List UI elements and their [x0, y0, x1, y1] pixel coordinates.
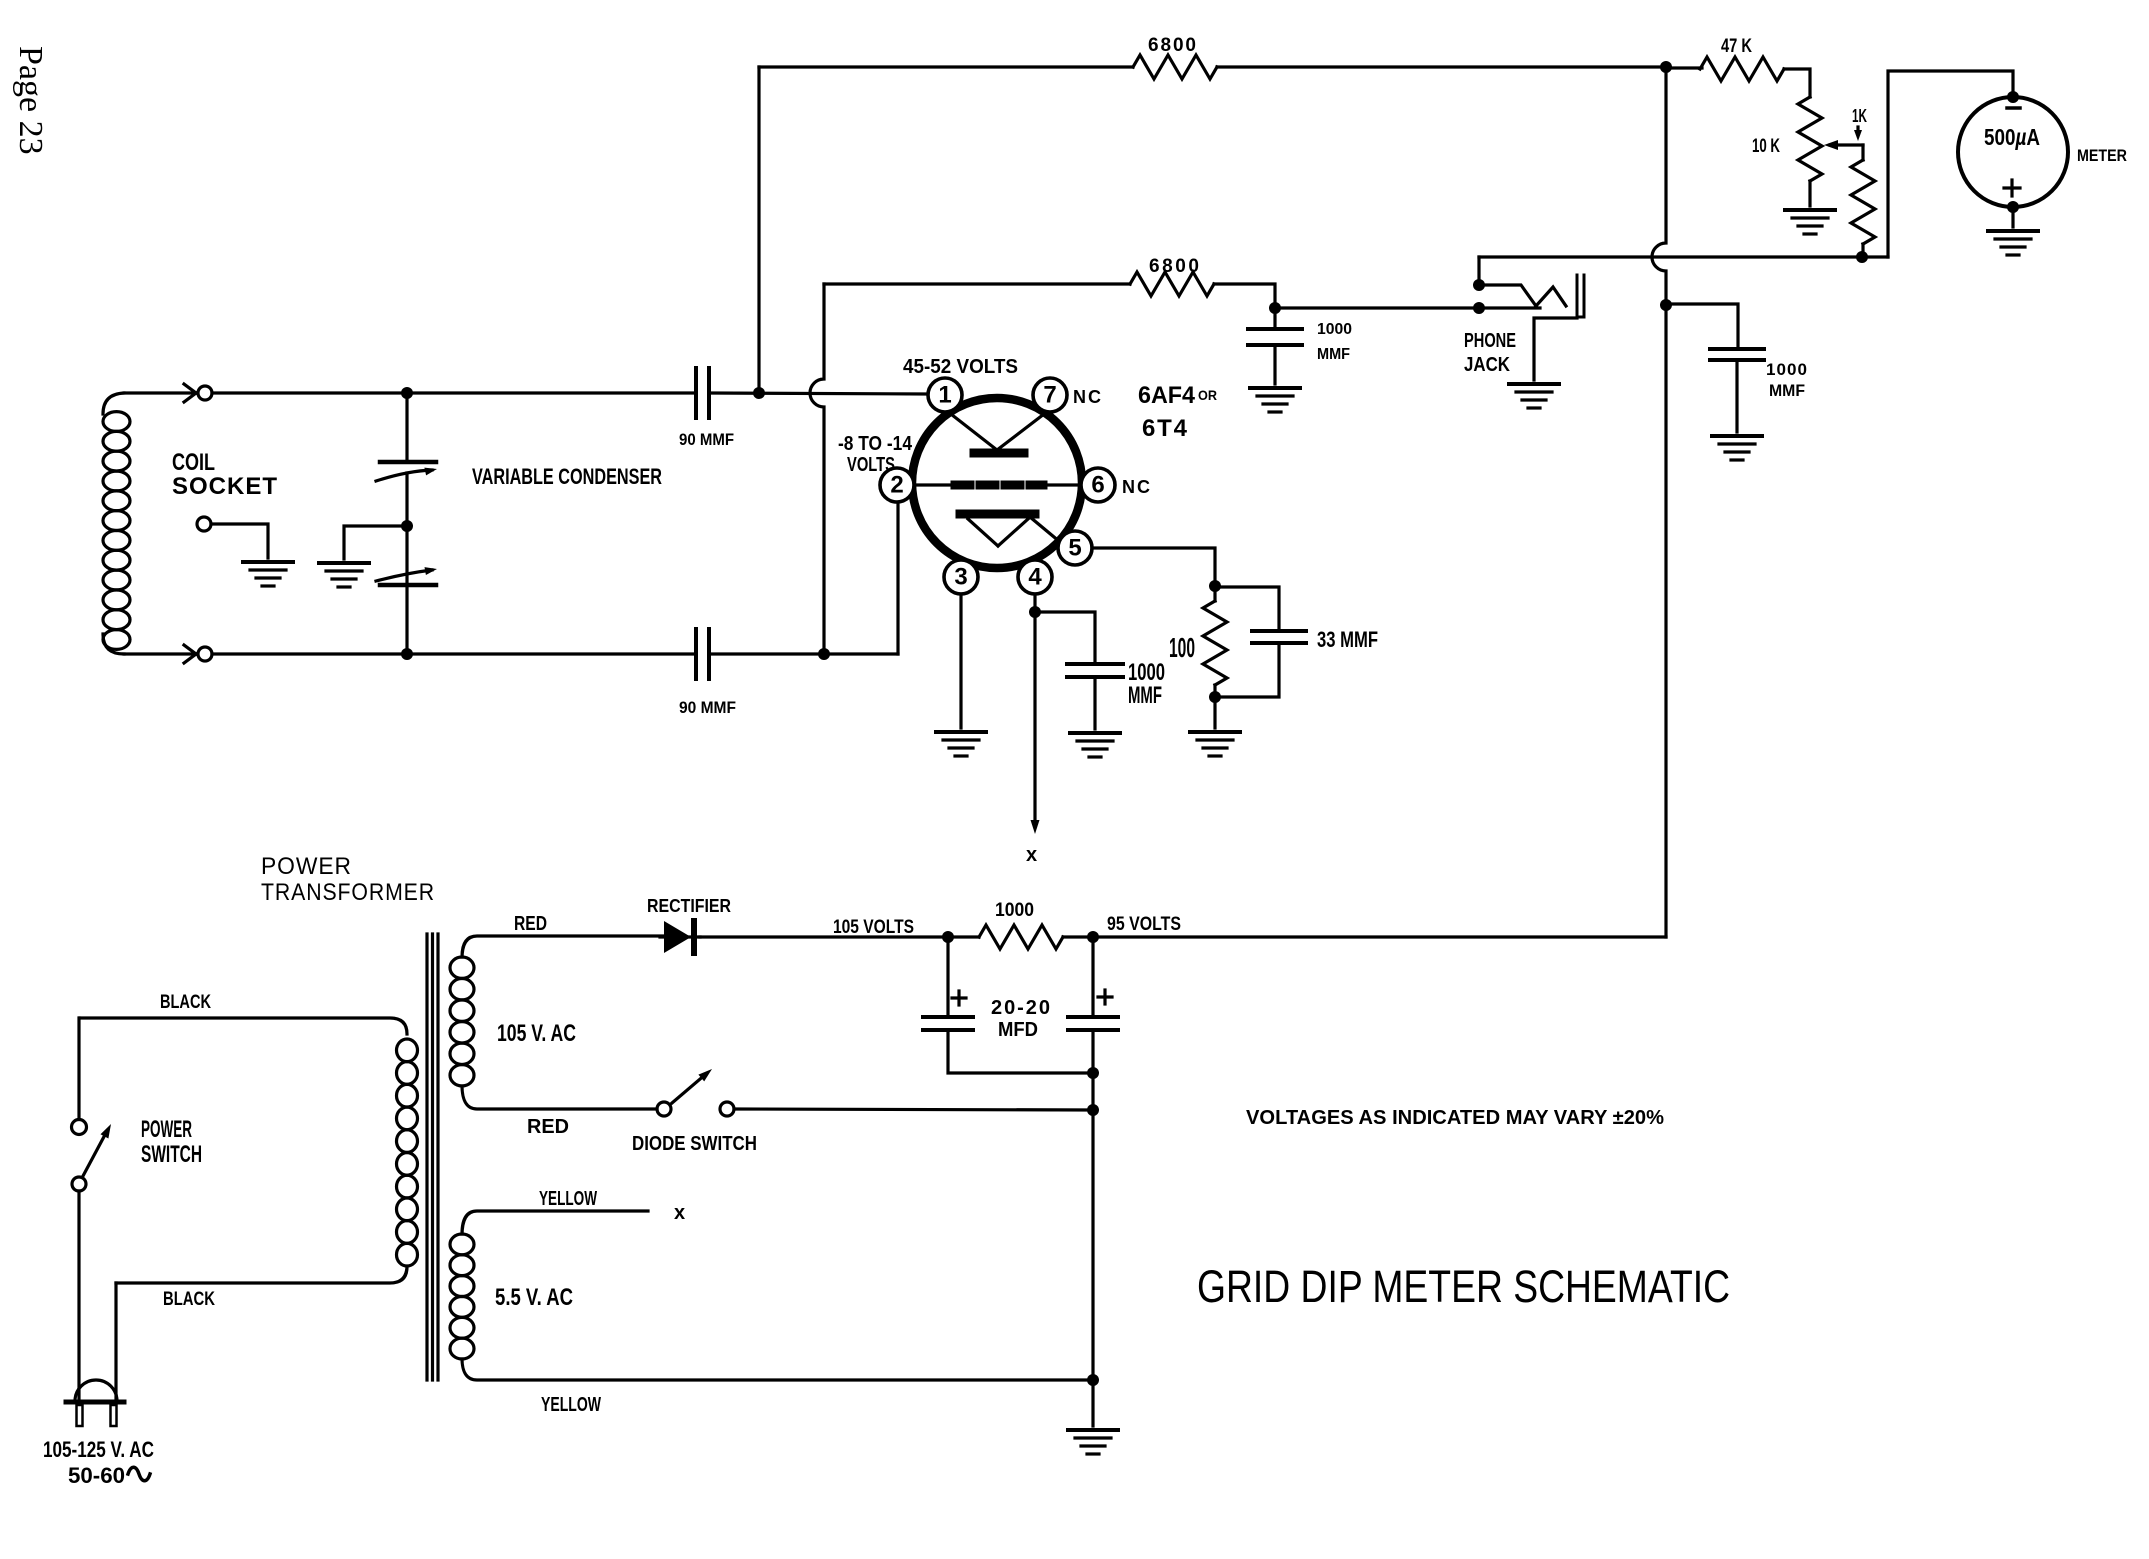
pin 3: [944, 560, 978, 594]
svg-text:TRANSFORMER: TRANSFORMER: [261, 879, 435, 906]
node: meter branch junction: [1856, 251, 1868, 263]
AC plug: [66, 1380, 124, 1426]
transformer primary winding: [80, 1018, 418, 1283]
svg-text:6T4: 6T4: [1142, 415, 1188, 442]
node: 1000MMF bypass junction: [1269, 302, 1281, 314]
node: pin 4 heater junction: [1029, 606, 1041, 618]
variable condenser ganged capacitor section 1: [376, 393, 437, 481]
node: B+ / 1000MMF RF bypass: [1660, 299, 1672, 311]
node: heater return: [1087, 1374, 1099, 1386]
capacitor 33 MMF: [1215, 587, 1306, 697]
label COIL SOCKET: [172, 449, 277, 500]
tube filament V: [968, 519, 1028, 546]
svg-text:MMF: MMF: [1128, 682, 1162, 709]
svg-text:105-125 V. AC: 105-125 V. AC: [43, 1437, 154, 1462]
svg-text:500µA: 500µA: [1984, 124, 2040, 150]
ground (power supply common): [1068, 1430, 1118, 1454]
phone jack sleeve: [1577, 275, 1584, 317]
wire 6800 to B+ rail: [1217, 65, 1666, 68]
node: B+ top (6800/47K): [1660, 61, 1672, 73]
svg-text:5.5 V. AC: 5.5 V. AC: [495, 1284, 573, 1311]
svg-text:SWITCH: SWITCH: [141, 1141, 202, 1168]
node: meter plus terminal: [2007, 201, 2019, 213]
label PHONE JACK: [1464, 330, 1516, 376]
node: lower junction with 6800 dropper: [818, 648, 830, 660]
wire B+ to 47K: [1666, 66, 1702, 69]
label -8 TO -14 VOLTS: [838, 433, 913, 476]
wire jack to meter branch: [1479, 255, 1888, 258]
socket pin bottom: [198, 647, 212, 661]
svg-text:47 K: 47 K: [1721, 36, 1752, 57]
tube 6AF4/6T4 envelope: [912, 398, 1082, 568]
wire rectifier output: [700, 935, 948, 938]
svg-text:90 MMF: 90 MMF: [679, 430, 734, 449]
transformer secondary 105V winding: [450, 936, 666, 1109]
wire junction to 1000MMF heater bypass: [1035, 612, 1095, 664]
svg-text:45-52 VOLTS: 45-52 VOLTS: [903, 356, 1018, 378]
ground (1000MMF bypass): [1250, 388, 1300, 412]
resistor 6800 (top feedback): [1133, 55, 1217, 79]
potentiometer wiper arrow: [1824, 140, 1863, 150]
node: meter minus terminal: [2007, 91, 2019, 103]
label 1K with pointer: [1852, 106, 1867, 141]
transformer secondary 5.5V winding: [450, 1211, 1093, 1380]
wire to 1000 resistor: [948, 935, 979, 938]
svg-text:5: 5: [1068, 535, 1081, 562]
tube anode plate bar: [974, 449, 1024, 458]
capacitor 90 MMF upper: [696, 368, 709, 418]
node: variable condenser top: [401, 387, 413, 399]
node: top RC junction: [753, 387, 765, 399]
wire pin 3 to ground: [959, 594, 962, 728]
wire coil top to socket pin: [124, 391, 196, 394]
ground (variable condenser rotor): [319, 563, 369, 587]
pin 4: [1018, 560, 1052, 594]
wire to RF bypass cap: [1666, 304, 1738, 349]
tube anode V leads to pins 1 and 7: [947, 411, 1048, 450]
node: variable condenser bottom: [401, 648, 413, 660]
node: 100/33MMF top: [1209, 580, 1221, 592]
wire vertical from top 6800 feedback line: [757, 67, 760, 393]
svg-text:GRID DIP METER SCHEMATIC: GRID DIP METER SCHEMATIC: [1197, 1261, 1730, 1312]
ground (coil socket center pin): [243, 562, 293, 586]
ground (10K): [1785, 210, 1835, 234]
wire 90MMF lower to pin2 riser: [709, 652, 898, 655]
socket contact arrow bottom: [184, 645, 196, 663]
svg-text:1: 1: [938, 382, 951, 409]
svg-text:Page 23: Page 23: [12, 46, 49, 155]
wire 6800 to phone jack line: [1214, 284, 1275, 308]
node: 100/33MMF bottom: [1209, 691, 1221, 703]
wire to chassis ground: [1091, 1110, 1094, 1426]
svg-text:10 K: 10 K: [1752, 136, 1780, 157]
tube grid (dashed bar): [955, 481, 1043, 490]
pin 5: [1058, 531, 1092, 565]
svg-text:105 VOLTS: 105 VOLTS: [833, 917, 914, 938]
svg-text:x: x: [674, 1202, 685, 1224]
svg-text:3: 3: [954, 564, 967, 591]
svg-text:6: 6: [1091, 472, 1104, 499]
svg-text:105 V. AC: 105 V. AC: [497, 1020, 576, 1047]
svg-text:POWER: POWER: [141, 1116, 192, 1143]
wire 95V to B+ riser: [1063, 935, 1666, 938]
wire pin 4 to X (heater supply arrow): [1033, 612, 1036, 822]
resistor 6800 (grid leak): [1130, 272, 1214, 296]
svg-text:1K: 1K: [1852, 106, 1867, 126]
svg-text:RECTIFIER: RECTIFIER: [647, 896, 731, 916]
wire meter branch up and over: [1888, 71, 2013, 257]
resistor 1K: [1851, 145, 1875, 257]
ground (B+ RF bypass): [1712, 436, 1762, 460]
coil (plug-in coil winding): [103, 393, 130, 654]
svg-text:1000: 1000: [995, 900, 1034, 921]
svg-text:YELLOW: YELLOW: [541, 1394, 601, 1416]
socket contact arrow top: [184, 384, 196, 402]
label 1000 MMF B+: [1766, 360, 1807, 400]
svg-text:90 MMF: 90 MMF: [679, 698, 736, 717]
label 1000 MMF heater: [1128, 659, 1165, 709]
resistor 47K: [1700, 57, 1784, 81]
svg-text:YELLOW: YELLOW: [539, 1188, 597, 1210]
wire meter to ground: [2011, 207, 2014, 227]
pin 6: [1081, 468, 1115, 502]
svg-text:MFD: MFD: [998, 1019, 1038, 1041]
capacitor 1000 MMF (B+ RF bypass): [1710, 349, 1764, 432]
resistor 100: [1203, 586, 1227, 697]
capacitor 90 MMF lower: [696, 629, 709, 679]
svg-text:6800: 6800: [1148, 35, 1196, 56]
wire transformer return to plug: [114, 1283, 117, 1399]
svg-text:VOLTS: VOLTS: [847, 454, 895, 476]
socket pin top: [198, 386, 212, 400]
svg-text:1000: 1000: [1766, 360, 1807, 379]
svg-text:100: 100: [1169, 632, 1195, 663]
diode switch: [657, 1069, 734, 1116]
wire to power switch: [77, 1018, 80, 1119]
svg-text:JACK: JACK: [1464, 354, 1510, 376]
socket pin center (grounded): [197, 517, 211, 531]
svg-text:RED: RED: [514, 913, 547, 935]
svg-text:COIL: COIL: [172, 449, 215, 476]
ground (meter): [1988, 231, 2038, 255]
svg-text:POWER: POWER: [261, 853, 352, 880]
label 50-60 cycles: [68, 1463, 150, 1488]
meter M 500uA: [1958, 97, 2068, 207]
tube cathode lead to pin 5: [1030, 517, 1060, 542]
svg-text:BLACK: BLACK: [160, 992, 211, 1013]
power switch: [72, 1120, 112, 1192]
pin 2: [880, 468, 914, 502]
node: filter output: [1087, 931, 1099, 943]
phone jack contact springs: [1479, 285, 1566, 308]
svg-text:SOCKET: SOCKET: [172, 473, 277, 500]
wire socket pin bottom to 90MMF lower: [212, 652, 694, 655]
capacitor 20MFD output: [1068, 937, 1118, 1110]
wire rotor to ground: [344, 526, 407, 559]
node: jack upper contact: [1473, 279, 1485, 291]
svg-text:VOLTAGES AS INDICATED MAY VARY: VOLTAGES AS INDICATED MAY VARY ±20%: [1246, 1107, 1664, 1129]
node: switch line at cap string: [1087, 1104, 1099, 1116]
svg-text:6AF4: 6AF4: [1138, 382, 1196, 409]
svg-text:DIODE SWITCH: DIODE SWITCH: [632, 1133, 757, 1155]
capacitor 1000 MMF (heater bypass): [1067, 664, 1123, 729]
wire to phone jack: [1275, 306, 1479, 309]
ground (pin 3 / cathode return): [936, 732, 986, 756]
wire top feedback line: [759, 65, 1133, 68]
wire pin 5 to 100 ohm: [1092, 548, 1215, 586]
svg-text:BLACK: BLACK: [163, 1289, 215, 1310]
capacitor 1000 MMF (phone line bypass): [1248, 308, 1302, 384]
wire switch to plug: [77, 1191, 80, 1399]
label POWER SWITCH: [141, 1116, 202, 1168]
svg-text:-8 TO -14: -8 TO -14: [838, 433, 913, 455]
svg-text:20-20: 20-20: [991, 997, 1050, 1019]
label POWER TRANSFORMER: [261, 853, 435, 906]
wire to ground: [1213, 697, 1216, 728]
svg-text:PHONE: PHONE: [1464, 330, 1516, 352]
variable condenser ganged capacitor section 2: [376, 473, 437, 654]
wire grid-leak branch: [824, 282, 1130, 285]
wire 47K to 10K: [1784, 69, 1810, 97]
capacitor 20MFD input: [923, 937, 1093, 1073]
svg-text:MMF: MMF: [1317, 346, 1350, 363]
wire socket pin top to variable condenser and 90MMF: [212, 391, 694, 394]
wire pin 4 down: [1033, 594, 1036, 612]
pin 1: [928, 378, 962, 412]
pin 7: [1033, 378, 1067, 412]
label 6AF4 or 6T4: [1138, 382, 1217, 442]
transformer core: [427, 934, 438, 1380]
node: filter input: [942, 931, 954, 943]
svg-text:50-60: 50-60: [68, 1463, 125, 1488]
rectifier diode: [660, 921, 700, 953]
svg-text:METER: METER: [2077, 146, 2127, 165]
wire pin2 riser: [896, 502, 899, 654]
wire diode switch to filter common: [734, 1109, 1093, 1110]
svg-text:OR: OR: [1198, 387, 1217, 403]
svg-text:4: 4: [1028, 564, 1042, 591]
wire B+ rail with crossover hop: [1652, 67, 1666, 937]
tube grid leads: [914, 483, 1081, 486]
svg-text:7: 7: [1043, 382, 1056, 409]
svg-text:1000: 1000: [1317, 321, 1352, 338]
wire 90MMF upper to grid node: [709, 393, 926, 394]
svg-text:x: x: [1026, 844, 1037, 866]
svg-text:33 MMF: 33 MMF: [1317, 627, 1378, 652]
tube cathode bar: [960, 510, 1035, 519]
svg-text:VARIABLE CONDENSER: VARIABLE CONDENSER: [472, 464, 662, 489]
wire phone jack tip feed: [1477, 257, 1480, 285]
svg-text:RED: RED: [527, 1116, 569, 1138]
ground (phone jack): [1509, 384, 1559, 408]
wire: 6800 grid-leak branch with crossover hop: [810, 284, 824, 654]
svg-text:MMF: MMF: [1769, 381, 1805, 400]
ground (100 ohm): [1190, 732, 1240, 756]
wire sleeve to ground: [1534, 318, 1577, 380]
node: jack line contact: [1473, 302, 1485, 314]
label 20-20 MFD: [991, 997, 1050, 1041]
label 1000 MMF bypass: [1317, 321, 1352, 363]
node: filter cap common: [1087, 1067, 1099, 1079]
node: variable condenser rotor center: [401, 520, 413, 532]
wire center pin to ground: [211, 524, 268, 558]
ground (heater bypass): [1070, 733, 1120, 757]
wire coil bottom to socket pin: [124, 652, 196, 655]
resistor 10K (potentiometer): [1798, 97, 1822, 206]
svg-text:95 VOLTS: 95 VOLTS: [1107, 914, 1181, 935]
resistor 1000 (filter): [979, 925, 1063, 949]
